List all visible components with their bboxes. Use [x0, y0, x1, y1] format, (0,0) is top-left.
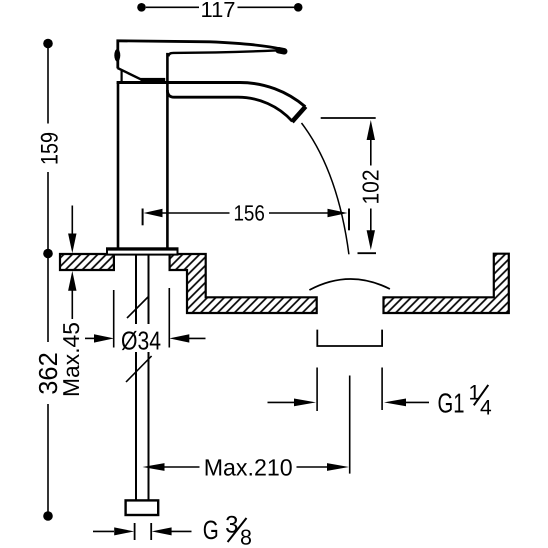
- spout tip face: [292, 107, 306, 122]
- svg-text:102: 102: [358, 170, 384, 205]
- hose end fitting G3/8: [126, 500, 159, 515]
- break slash 2: [126, 356, 152, 382]
- svg-text:4: 4: [480, 397, 492, 420]
- dimension Max.210: [143, 463, 165, 471]
- dimension 102: [321, 117, 376, 119]
- svg-text:G1: G1: [438, 387, 465, 418]
- svg-text:159: 159: [36, 132, 63, 165]
- handle chamfer: [118, 68, 142, 80]
- left vertical reference line with dots: [43, 39, 53, 49]
- handle bulge: [114, 49, 120, 62]
- countertop left deck (hatched): [60, 254, 114, 270]
- svg-text:Max.210: Max.210: [204, 455, 293, 481]
- dimension Phi34: [113, 290, 115, 348]
- lever tip: [279, 50, 285, 51]
- drain flange U below sink: [317, 330, 382, 346]
- svg-text:117: 117: [201, 0, 236, 22]
- countertop right sink bottom and right step: [384, 254, 509, 313]
- dimension 117: [137, 3, 146, 12]
- faucet body top edge and spout outer curve: [117, 83, 306, 107]
- break slash 1: [127, 296, 149, 318]
- drain centerline: [349, 376, 351, 474]
- svg-text:Max.45: Max.45: [58, 322, 84, 397]
- svg-text:156: 156: [233, 200, 265, 225]
- dimension Max.45: [71, 206, 73, 238]
- supply tube/shank: [135, 255, 137, 501]
- dimension 156: [142, 209, 144, 226]
- cartridge vertical: [120, 71, 122, 82]
- water stream: [302, 123, 349, 254]
- lever top edge: [117, 41, 283, 49]
- dimension G1 1/4: [316, 368, 318, 412]
- faucet body left edge: [117, 83, 120, 249]
- spout inner edge: [167, 90, 292, 121]
- handle gap dark bar: [141, 78, 166, 82]
- faucet base plate: [107, 248, 178, 254]
- svg-text:3: 3: [225, 512, 238, 539]
- svg-text:8: 8: [240, 526, 252, 548]
- svg-text:1: 1: [468, 382, 480, 405]
- handle left edge: [116, 40, 119, 69]
- countertop mid deck with step down to sink bottom: [170, 254, 317, 313]
- lever bottom edge: [168, 50, 276, 56]
- svg-text:G: G: [203, 515, 219, 545]
- svg-text:Ø34: Ø34: [121, 325, 161, 355]
- body right edge / lever underside corner vertical: [166, 53, 169, 249]
- pop-up drain dome arc: [309, 279, 390, 290]
- dimension G 3/8: [134, 523, 136, 540]
